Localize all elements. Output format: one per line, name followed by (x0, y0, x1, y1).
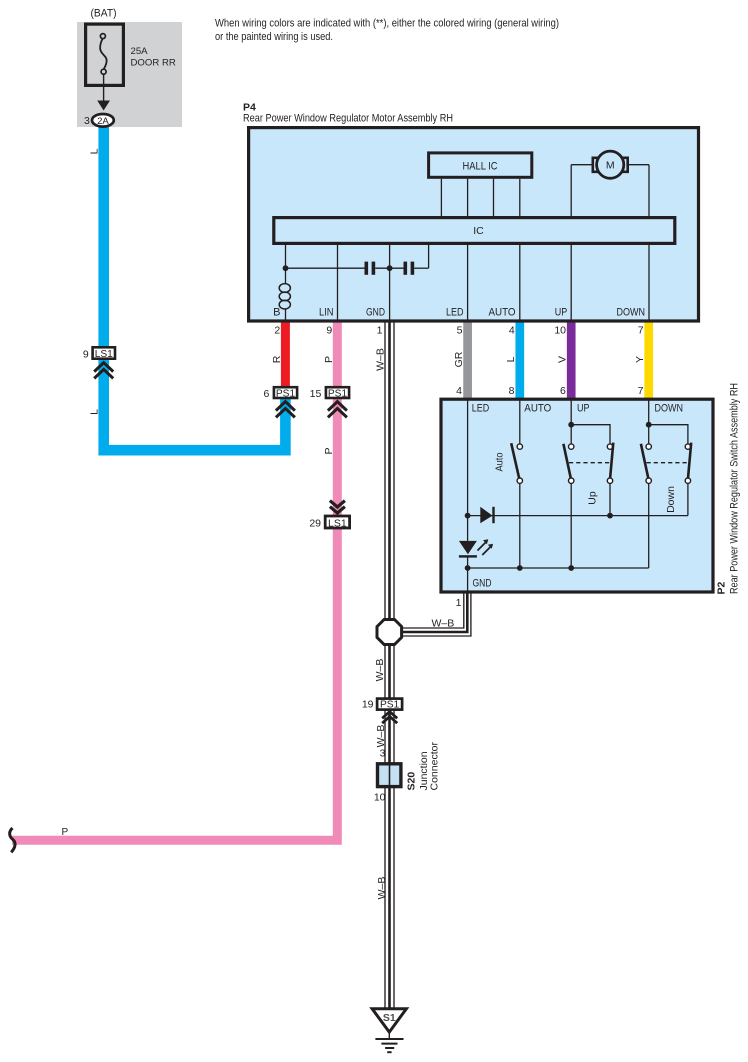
fuse 25A DOOR RR (86, 24, 176, 85)
IC box (274, 218, 675, 244)
P2 pin numbers (top) (456, 385, 644, 397)
svg-text:AUTO: AUTO (489, 307, 516, 319)
svg-text:UP: UP (555, 307, 568, 319)
svg-text:R: R (271, 355, 283, 363)
svg-text:When wiring colors are indicat: When wiring colors are indicated with (*… (215, 18, 559, 30)
diode row wire (468, 515, 688, 517)
wire UP left switch to bus (570, 483, 572, 568)
wire L (blue) P4 pin4 to P2 pin8 (515, 321, 524, 400)
svg-text:P: P (62, 827, 69, 838)
svg-text:L: L (88, 148, 100, 154)
svg-text:PS1: PS1 (380, 700, 400, 711)
junction dots P2 (465, 422, 652, 571)
svg-text:DOWN: DOWN (617, 307, 646, 319)
wire W-B S20 to ground S1 (385, 788, 394, 1009)
P4 box Rear Power Window Regulator Motor Assembly RH (249, 128, 699, 321)
svg-text:S20: S20 (406, 772, 418, 791)
svg-text:9: 9 (83, 348, 89, 360)
svg-text:L: L (505, 356, 517, 362)
inductor coil on B line (279, 284, 290, 309)
svg-text:Y: Y (634, 356, 646, 363)
svg-text:4: 4 (456, 385, 462, 397)
switch SW-AUTO (494, 443, 523, 483)
svg-text:7: 7 (638, 385, 644, 397)
ground S1 (372, 1009, 406, 1052)
svg-text:LED: LED (472, 403, 490, 415)
connector oval 2A (92, 114, 114, 127)
wire L (blue) from 2A down, right at bottom, up to PS1-6 (104, 124, 286, 450)
break symbol on pink wire (10, 828, 15, 852)
svg-text:P: P (323, 356, 335, 363)
svg-text:Rear Power Window Regulator Sw: Rear Power Window Regulator Switch Assem… (729, 383, 741, 594)
svg-text:AUTO: AUTO (524, 403, 551, 415)
svg-text:Down: Down (665, 486, 677, 513)
svg-text:Auto: Auto (494, 452, 506, 471)
wire auto switch to bus (519, 483, 521, 568)
P2 internal wires (468, 400, 688, 592)
junction dot B/cap (283, 265, 289, 271)
battery feed gray panel (77, 22, 182, 127)
svg-text:W–B: W–B (374, 659, 386, 682)
svg-text:GR: GR (453, 351, 465, 367)
connector PS1 pin19 on W-B wire (362, 699, 402, 724)
wire W-B from P4 GND to junction (385, 321, 394, 620)
svg-text:GND: GND (366, 307, 385, 319)
svg-text:Up: Up (587, 491, 599, 505)
connector PS1 pin6 on red/blue wire (263, 387, 297, 417)
junction node (octagon) (377, 620, 402, 645)
wire DOWN right switch to diode row (687, 483, 689, 515)
svg-text:10: 10 (374, 792, 386, 804)
wire DOWN branch to right switch (649, 425, 688, 444)
svg-text:HALL IC: HALL IC (463, 160, 498, 172)
svg-text:3: 3 (84, 115, 90, 127)
wire DOWN column (648, 400, 650, 444)
svg-text:UP: UP (577, 403, 590, 415)
svg-text:3: 3 (380, 748, 386, 760)
diode D1 (480, 507, 494, 523)
P2 box Rear Power Window Regulator Switch Assembly RH (441, 399, 713, 592)
svg-text:GND: GND (473, 578, 492, 590)
LED D2 (459, 539, 493, 557)
svg-text:25A: 25A (131, 46, 149, 57)
wire P (pink) P4 pin9 down and left to break (12, 321, 337, 840)
svg-text:V: V (556, 356, 568, 363)
svg-text:P: P (323, 447, 335, 454)
svg-text:9: 9 (326, 325, 332, 337)
svg-text:P2: P2 (716, 581, 728, 594)
wire fuse to connector with arrow (97, 74, 110, 110)
P4 pin numbers (274, 325, 643, 337)
svg-text:PS1: PS1 (328, 389, 348, 400)
wire LED column (467, 400, 469, 516)
svg-text:L: L (88, 409, 100, 415)
svg-text:B: B (273, 307, 280, 319)
svg-text:29: 29 (309, 517, 321, 529)
svg-text:IC: IC (473, 225, 484, 237)
internal column wires below IC (286, 244, 650, 321)
svg-text:LS1: LS1 (95, 349, 113, 360)
svg-text:2A: 2A (97, 116, 109, 127)
svg-text:M: M (606, 160, 615, 172)
svg-text:7: 7 (638, 325, 644, 337)
wire W-B from P2 GND to junction (402, 592, 471, 636)
connector LS1 pin9 on blue wire (83, 347, 115, 378)
wire AUTO column to switch (519, 400, 521, 444)
wire DOWN left switch to bus (648, 483, 650, 568)
svg-text:W–B: W–B (376, 877, 388, 900)
P4 pin name labels (273, 307, 645, 319)
wire R (red) P4 pin2 to PS1-6 (281, 321, 290, 393)
wire W-B PS1-19 to S20 (385, 709, 394, 763)
svg-text:19: 19 (362, 699, 374, 711)
svg-text:DOWN: DOWN (655, 403, 684, 415)
svg-text:W–B: W–B (375, 725, 387, 748)
junction dot GND/cap (387, 265, 393, 271)
svg-text:6: 6 (263, 388, 269, 400)
connector PS1 pin15 on pink wire (310, 387, 349, 417)
svg-text:8: 8 (509, 385, 515, 397)
svg-text:LS1: LS1 (328, 517, 347, 529)
svg-text:1: 1 (377, 325, 383, 337)
svg-text:2: 2 (274, 325, 280, 337)
wire V (violet) P4 pin10 to P2 pin6 (567, 321, 576, 400)
HALL IC U-box (429, 153, 532, 177)
svg-text:1: 1 (456, 597, 462, 609)
wire GR (gray) P4 pin5 to P2 pin4 (463, 321, 472, 400)
wire UP right switch to diode row (609, 483, 611, 515)
svg-text:Rear Power Window Regulator Mo: Rear Power Window Regulator Motor Assemb… (243, 113, 453, 125)
switch SW-UP (double) (563, 443, 613, 505)
wire Y (yellow) P4 pin7 to P2 pin7 (644, 321, 653, 400)
svg-text:DOOR RR: DOOR RR (131, 58, 176, 69)
svg-text:LIN: LIN (319, 307, 334, 319)
capacitor net between B and IC (286, 244, 429, 268)
svg-text:10: 10 (554, 325, 566, 337)
wire UP column (570, 400, 572, 444)
capacitor C2 plates (404, 262, 415, 275)
motor M1 (571, 151, 649, 216)
junction connector S20 (374, 742, 441, 804)
P2 pin name labels (472, 403, 683, 415)
hall ic pin wires (441, 179, 519, 217)
svg-text:S1: S1 (383, 1012, 396, 1024)
svg-text:LED: LED (446, 307, 464, 319)
ground bus wire (468, 567, 649, 569)
rotated wire color labels (271, 348, 646, 899)
svg-text:Connector: Connector (429, 742, 441, 791)
svg-text:(BAT): (BAT) (91, 8, 117, 20)
svg-text:W–B: W–B (375, 348, 387, 371)
switch SW-DOWN (double) (641, 443, 691, 513)
svg-text:4: 4 (509, 325, 515, 337)
svg-text:PS1: PS1 (276, 389, 296, 400)
connector LS1 pin29 on pink wire with down arrows (309, 501, 349, 530)
svg-text:or the painted wiring is used.: or the painted wiring is used. (215, 31, 333, 43)
svg-text:6: 6 (560, 385, 566, 397)
wire UP branch to right switch (571, 425, 610, 444)
svg-text:15: 15 (310, 388, 322, 400)
wire W-B junction to PS1-19 (385, 645, 394, 699)
capacitor C1 plates (365, 262, 376, 275)
svg-text:W–B: W–B (432, 617, 455, 629)
svg-text:5: 5 (457, 325, 463, 337)
